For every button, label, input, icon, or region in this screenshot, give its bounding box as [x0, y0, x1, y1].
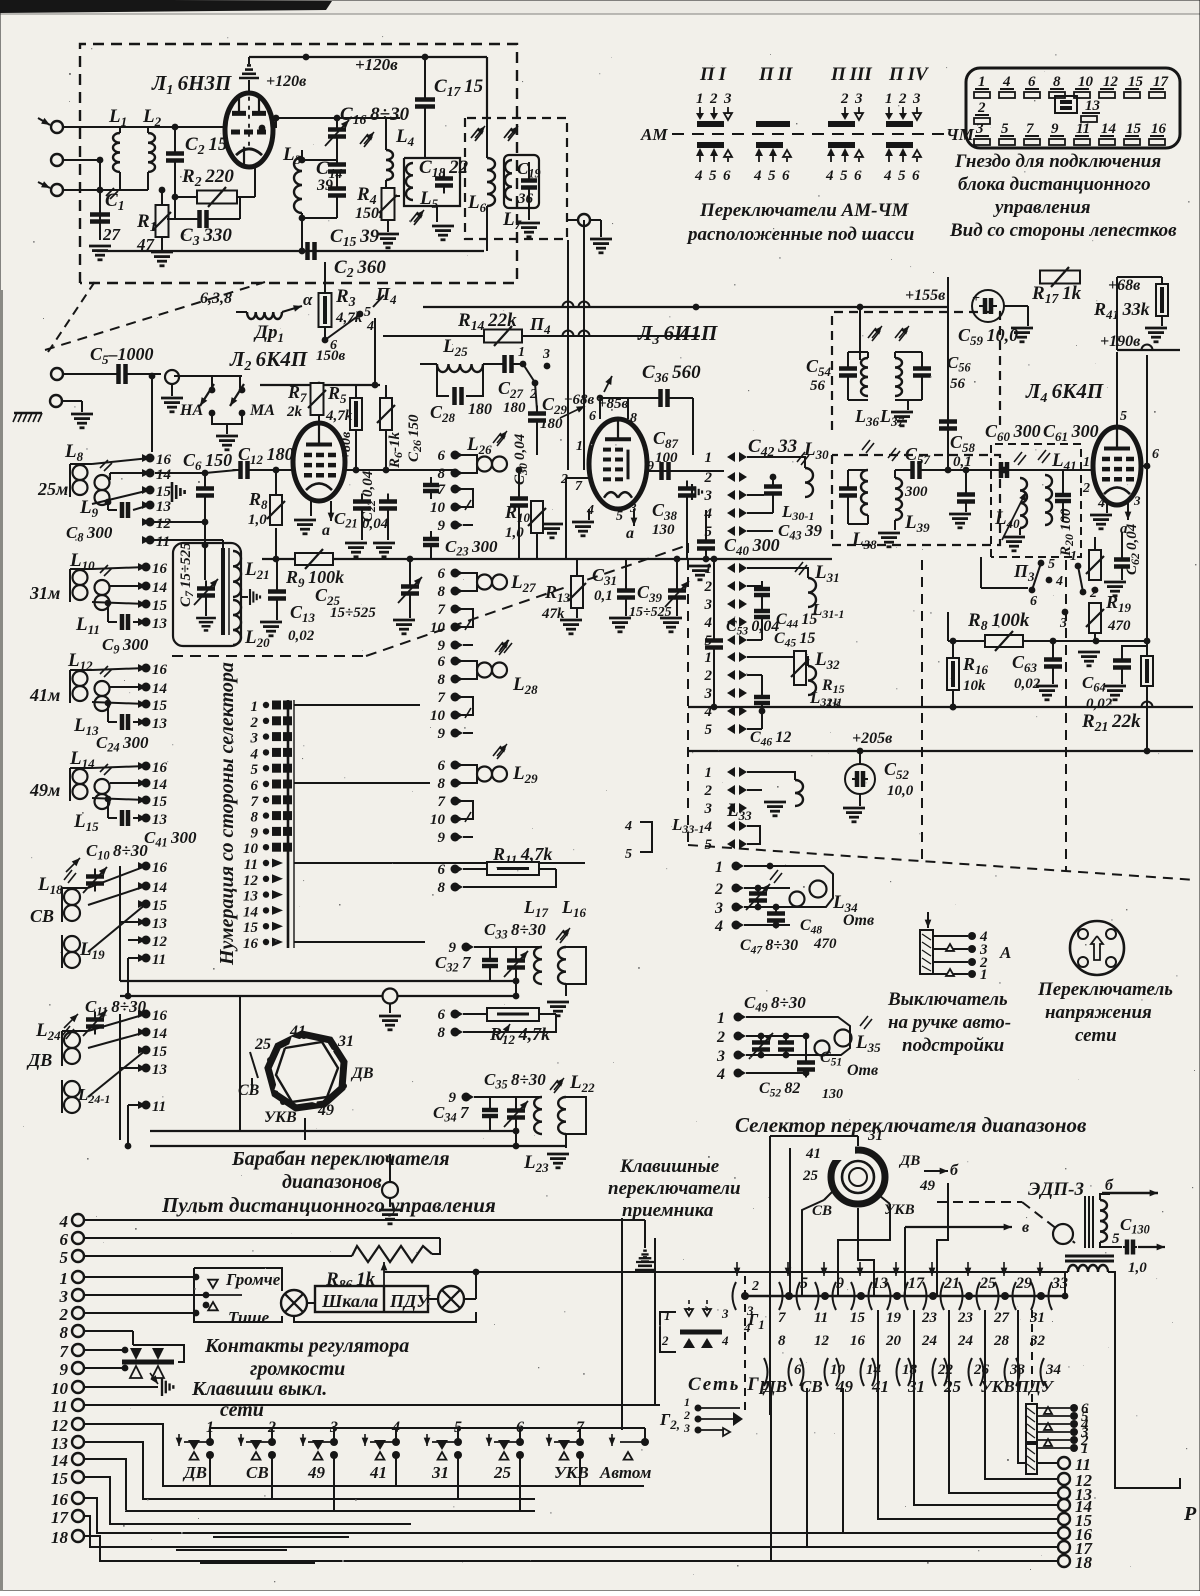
- tune mark L37: [895, 328, 903, 338]
- wire grid: [225, 126, 226, 128]
- svg-text:18: 18: [51, 1528, 69, 1547]
- svg-text:С5–1000: С5–1000: [90, 344, 154, 367]
- key link 2: [272, 1428, 334, 1442]
- resistors R18 R19 470: [1089, 550, 1101, 580]
- svg-text:Клавишные: Клавишные: [619, 1156, 720, 1177]
- capacitor C130 1.0: [1100, 1242, 1122, 1247]
- tune mark L36: [868, 328, 876, 338]
- wire t13 stair: [84, 1442, 535, 1499]
- contact arc L 13: [851, 1282, 855, 1310]
- svg-text:21: 21: [943, 1275, 960, 1292]
- svg-text:41м: 41м: [29, 685, 60, 705]
- capacitor C53 0.04: [713, 559, 715, 636]
- wire pin6: [1141, 465, 1147, 467]
- svg-text:9: 9: [836, 1275, 844, 1292]
- wire selector row6: [294, 782, 430, 784]
- resistor R17 1k: [1040, 271, 1080, 284]
- dashed vertical boundary 922: [921, 560, 923, 862]
- capacitor C28 under L25: [437, 364, 449, 396]
- inductor L12: [73, 671, 88, 686]
- resistor R21 22k v: [1141, 656, 1153, 686]
- contact arc R 25: [977, 1282, 981, 1310]
- svg-text:3: 3: [975, 121, 984, 137]
- svg-text:15÷525: 15÷525: [330, 605, 376, 621]
- long wire t16r: [200, 1532, 1058, 1534]
- drum stubs: [824, 1188, 836, 1200]
- capacitor C5 1000: [63, 373, 115, 375]
- wire L34 rows 1-3: [744, 866, 833, 907]
- stub pin2: [566, 477, 589, 479]
- svg-text:9: 9: [60, 1360, 69, 1379]
- svg-text:7: 7: [438, 794, 446, 810]
- ground under L5: [424, 157, 426, 159]
- terminal 11 right: [1058, 1457, 1070, 1469]
- wire IF to L4 grid: [948, 469, 1095, 471]
- wire 150v rail: [383, 335, 700, 337]
- svg-text:31: 31: [337, 1033, 354, 1050]
- svg-text:6: 6: [438, 566, 446, 582]
- wire L31 row1: [747, 567, 790, 569]
- svg-text:6: 6: [1030, 594, 1037, 609]
- mains open triangles: [685, 1309, 693, 1316]
- scale box: [315, 1286, 428, 1312]
- arrow a: [330, 501, 332, 521]
- wire selector row1: [294, 704, 420, 706]
- svg-text:15: 15: [152, 1044, 168, 1060]
- tune mark L18: [66, 858, 80, 872]
- arrow up 4: [885, 148, 893, 156]
- wire t15 stair: [84, 1477, 411, 1524]
- key link 4: [396, 1428, 458, 1442]
- svg-text:напряжения: напряжения: [1045, 1002, 1152, 1023]
- key link 7 right: [580, 1428, 645, 1442]
- capacitor C3 330: [174, 197, 176, 219]
- svg-text:+190в: +190в: [1100, 333, 1140, 350]
- arrow a L3: [633, 509, 635, 526]
- arrow up 5: [710, 148, 718, 156]
- key contacts 2: [268, 1438, 276, 1446]
- svg-text:3: 3: [704, 801, 713, 817]
- contact pin 16 DV: [142, 1010, 151, 1019]
- mains switch bar: [680, 1330, 722, 1335]
- selector contact 6: [263, 781, 269, 787]
- svg-text:15: 15: [243, 920, 259, 936]
- svg-text:3: 3: [59, 1287, 69, 1306]
- svg-text:1: 1: [705, 450, 713, 466]
- dashed PDU wire: [1031, 1310, 1033, 1404]
- dashed vertical chassis boundary: [687, 543, 689, 845]
- svg-text:5: 5: [616, 509, 623, 524]
- key triangles top: [130, 1348, 142, 1360]
- wire selector row11: [294, 862, 585, 864]
- arrow up 5: [769, 148, 777, 156]
- svg-text:4: 4: [883, 168, 892, 184]
- svg-text:12: 12: [814, 1333, 830, 1349]
- arrow up 4: [755, 148, 763, 156]
- ground cathode L4: [1106, 503, 1108, 513]
- wire Avtom link: [644, 1428, 646, 1442]
- svg-text:13: 13: [1085, 98, 1101, 114]
- drum gap: [830, 1146, 855, 1160]
- contact pin 16 25m: [146, 454, 155, 463]
- svg-text:Отв: Отв: [843, 912, 874, 929]
- svg-text:130: 130: [652, 522, 675, 538]
- resistor R6 1k: [385, 385, 387, 398]
- hatched connector bar: [1026, 1404, 1037, 1442]
- svg-text:16: 16: [152, 860, 168, 876]
- contact dot 33: [1037, 1292, 1045, 1300]
- svg-text:С61 300: С61 300: [1043, 421, 1099, 444]
- wire t14 stair: [84, 1459, 535, 1511]
- svg-text:С41 300: С41 300: [144, 828, 197, 850]
- inductor L33: [795, 780, 803, 806]
- node: [261, 128, 263, 155]
- svg-text:Вид со стороны лепестков: Вид со стороны лепестков: [949, 220, 1177, 241]
- svg-text:на ручке авто-: на ручке авто-: [888, 1012, 1011, 1033]
- svg-text:12: 12: [51, 1416, 69, 1435]
- group arrow 5: [787, 1262, 789, 1276]
- antenna terminal 1: [51, 121, 63, 133]
- open arrow down: [916, 107, 918, 113]
- svg-text:управления: управления: [993, 197, 1091, 218]
- svg-text:С35 8÷30: С35 8÷30: [484, 1070, 546, 1092]
- contact dot 13: [857, 1292, 865, 1300]
- selector contact 9: [263, 828, 269, 834]
- wire pair 7-10 L26: [455, 489, 473, 507]
- svg-text:Выключатель: Выключатель: [887, 989, 1008, 1010]
- contact dot 9: [821, 1292, 829, 1300]
- key contacts 5: [454, 1438, 462, 1446]
- svg-text:Переключатели АМ-ЧМ: Переключатели АМ-ЧМ: [699, 200, 910, 221]
- svg-text:С47 8÷30: С47 8÷30: [740, 937, 798, 957]
- inductor L14: [73, 769, 88, 784]
- inductor L19: [64, 936, 80, 952]
- arrow down 2: [713, 107, 715, 118]
- svg-text:13: 13: [152, 1062, 168, 1078]
- node: [483, 129, 485, 131]
- inductor L2: [147, 127, 149, 133]
- svg-text:5: 5: [768, 168, 776, 184]
- svg-text:11: 11: [244, 857, 258, 873]
- hatched bar autotune: [920, 930, 933, 974]
- svg-text:11: 11: [814, 1310, 828, 1326]
- svg-text:1: 1: [251, 699, 259, 715]
- svg-text:сети: сети: [220, 1399, 264, 1421]
- svg-text:23: 23: [957, 1310, 974, 1326]
- svg-text:Сеть Гр: Сеть Гр: [688, 1374, 772, 1395]
- svg-text:16: 16: [1151, 121, 1167, 137]
- ground triangle t4: [636, 1261, 654, 1263]
- contact pin 13 25m: [146, 501, 155, 510]
- inductor L27: [477, 575, 492, 590]
- key link 1: [210, 1428, 272, 1442]
- svg-text:С30 0,04: С30 0,04: [512, 433, 530, 485]
- svg-text:150в: 150в: [316, 348, 346, 364]
- svg-text:П IV: П IV: [888, 64, 929, 85]
- svg-text:14: 14: [152, 777, 168, 793]
- G2 triangles: [733, 1412, 743, 1426]
- vertical wire k7: [937, 1183, 948, 1296]
- svg-text:2: 2: [898, 91, 907, 107]
- svg-text:в: в: [1022, 1219, 1029, 1236]
- switch bar bottom: [886, 142, 913, 148]
- svg-text:А: А: [999, 943, 1011, 962]
- svg-text:10: 10: [430, 500, 446, 516]
- wire pin15: [92, 602, 146, 604]
- svg-text:4: 4: [721, 1333, 729, 1348]
- svg-text:4: 4: [1002, 74, 1011, 90]
- resistor R5 4.7k: [355, 385, 357, 398]
- selector contact 2: [263, 718, 269, 724]
- svg-text:23: 23: [921, 1310, 938, 1326]
- row wires: [747, 494, 764, 496]
- svg-text:3: 3: [716, 1048, 725, 1065]
- wire t7: [84, 1349, 125, 1351]
- lower arc R 18: [897, 1358, 901, 1386]
- wire t6 down: [654, 1238, 656, 1404]
- svg-text:1: 1: [518, 345, 525, 360]
- svg-text:7: 7: [438, 690, 446, 706]
- capacitor C29 180: [528, 411, 546, 416]
- contact arc R 29: [1013, 1282, 1017, 1310]
- svg-text:6: 6: [854, 168, 862, 184]
- ground stub left: [541, 523, 563, 526]
- svg-text:1: 1: [1070, 549, 1077, 564]
- contact arc L 17: [887, 1282, 891, 1310]
- svg-text:3: 3: [683, 1421, 690, 1435]
- wire R8 top: [275, 470, 277, 495]
- lower arc L 10: [800, 1358, 804, 1386]
- svg-text:7: 7: [1026, 121, 1034, 137]
- inductor L37: [895, 358, 902, 396]
- capacitor C64 0.02: [1113, 658, 1131, 663]
- key open triangle 5: [438, 1452, 447, 1460]
- contact pin 13: [142, 618, 151, 627]
- chassis ground mark: [14, 412, 42, 414]
- svg-text:17: 17: [1153, 74, 1169, 90]
- inductor L26: [477, 457, 492, 472]
- inductor L34: [790, 892, 805, 907]
- svg-text:11: 11: [156, 534, 170, 550]
- svg-text:СВ: СВ: [812, 1203, 832, 1219]
- svg-text:25м: 25м: [37, 479, 68, 499]
- vertical wire k5: [858, 1208, 874, 1296]
- svg-text:31м: 31м: [29, 583, 60, 603]
- svg-text:11: 11: [1076, 121, 1090, 137]
- dashed box UKV unit: [80, 44, 517, 283]
- ground C52: [859, 794, 861, 806]
- key drop 5: [457, 1455, 459, 1499]
- svg-text:13: 13: [152, 916, 168, 932]
- potentiometer R86 1k: [352, 1246, 432, 1262]
- svg-text:14: 14: [156, 467, 172, 483]
- drum inner cut: [274, 1037, 333, 1104]
- resistor R11 body: [463, 868, 487, 870]
- svg-text:39: 39: [316, 177, 333, 194]
- inductor L39: [895, 478, 902, 520]
- svg-text:1: 1: [705, 765, 713, 781]
- terminal 16 right: [1058, 1527, 1070, 1539]
- contact pin 15: [142, 796, 151, 805]
- wire t11: [84, 1404, 660, 1406]
- svg-text:б: б: [950, 1162, 959, 1179]
- svg-text:Селектор переключателя диапазо: Селектор переключателя диапазонов: [735, 1113, 1087, 1137]
- contact dot 21: [929, 1292, 937, 1300]
- tube U3 6I1P: [589, 419, 647, 509]
- svg-text:5: 5: [705, 524, 713, 540]
- resistor R10 1.0: [531, 501, 543, 533]
- wire pair 6-8 L27: [455, 573, 477, 591]
- svg-text:15: 15: [850, 1310, 866, 1326]
- group arrow 9: [823, 1262, 825, 1276]
- wire tube to contacts: [345, 469, 455, 471]
- wire pair 6-8 L26: [455, 455, 477, 473]
- stub: [124, 1350, 126, 1368]
- svg-text:0,02: 0,02: [288, 628, 315, 644]
- svg-text:9: 9: [438, 830, 446, 846]
- wires 12 11 CB: [128, 939, 146, 941]
- svg-text:4: 4: [704, 615, 713, 631]
- svg-text:С36 560: С36 560: [642, 362, 701, 385]
- svg-text:11: 11: [152, 952, 166, 968]
- selector contact 8: [263, 812, 269, 818]
- svg-text:2: 2: [704, 668, 713, 684]
- dashed box L40 L41: [991, 444, 1081, 557]
- svg-text:НА: НА: [179, 402, 203, 419]
- svg-text:10: 10: [430, 812, 446, 828]
- svg-text:10: 10: [243, 841, 259, 857]
- inductor L11: [95, 580, 110, 595]
- svg-text:49: 49: [307, 1463, 326, 1482]
- wire anode up: [318, 385, 320, 423]
- arrow up 4: [827, 148, 835, 156]
- svg-text:1: 1: [1081, 1441, 1089, 1457]
- svg-text:20: 20: [885, 1333, 902, 1349]
- svg-text:41: 41: [871, 1377, 889, 1396]
- capacitor C51 130: [797, 1060, 815, 1065]
- svg-text:2: 2: [751, 1279, 759, 1294]
- wire +155 into IF1: [859, 307, 861, 360]
- svg-text:34: 34: [1045, 1362, 1062, 1378]
- contact pin 13 CB: [142, 918, 151, 927]
- contact arc L 9: [815, 1282, 819, 1310]
- core marks L1/L2: [106, 188, 114, 196]
- lower arc R 34: [1041, 1358, 1045, 1386]
- wire drop SV: [806, 1388, 808, 1547]
- wire to switch NA: [174, 375, 212, 377]
- svg-text:8: 8: [438, 880, 446, 896]
- inductor L3: [301, 150, 303, 157]
- wire drop DV: [770, 1388, 772, 1561]
- svg-text:36: 36: [517, 191, 534, 207]
- svg-text:громкости: громкости: [250, 1358, 345, 1380]
- terminal 14 right: [1058, 1499, 1070, 1511]
- tune mark L31: [795, 562, 803, 572]
- inductor L23 coil and ground: [558, 1097, 566, 1134]
- switch bar bottom: [697, 142, 724, 148]
- svg-text:Громче: Громче: [225, 1270, 281, 1289]
- tune mark L41: [1038, 450, 1046, 460]
- inductor L1: [119, 127, 121, 133]
- capacitor C40 300: [697, 539, 715, 544]
- svg-text:2: 2: [59, 1305, 69, 1324]
- contact dot 25: [965, 1292, 973, 1300]
- vertical wire k3: [802, 1200, 824, 1296]
- svg-text:П III: П III: [830, 64, 872, 85]
- wire antenna to L1/L2 top: [63, 126, 226, 128]
- tuning mark L6: [471, 128, 479, 138]
- wire row1: [747, 456, 790, 458]
- chassis triangle above tube: [239, 77, 259, 80]
- svg-text:R6-1k: R6-1k: [387, 431, 405, 469]
- inductor L28: [477, 663, 492, 678]
- svg-text:СВ: СВ: [238, 1082, 260, 1099]
- side ground C38: [691, 484, 693, 500]
- capacitor C1 27 with ground: [99, 210, 101, 240]
- svg-text:49м: 49м: [29, 780, 60, 800]
- wire to P3 pin6: [980, 557, 982, 588]
- group arrow 25: [967, 1262, 969, 1276]
- svg-text:П I: П I: [699, 64, 727, 85]
- key arrow 4: [364, 1434, 366, 1446]
- wire t16 stair: [84, 1498, 200, 1533]
- svg-text:ПДУ: ПДУ: [389, 1291, 431, 1311]
- svg-text:Л3 6И1П: Л3 6И1П: [637, 321, 718, 348]
- svg-text:0,04: 0,04: [362, 516, 389, 532]
- svg-text:3: 3: [912, 91, 921, 107]
- svg-text:П II: П II: [758, 64, 793, 85]
- switch P4 wire: [324, 327, 326, 340]
- svg-text:ДВ: ДВ: [350, 1065, 374, 1082]
- pin 1 autotune: [933, 973, 968, 975]
- capacitor C31 0.1: [617, 588, 635, 593]
- ground below bus: [689, 565, 711, 568]
- variable capacitor C7: [204, 545, 206, 580]
- svg-text:4: 4: [704, 506, 713, 522]
- drum switch ring: [268, 1034, 344, 1108]
- svg-text:5: 5: [898, 168, 906, 184]
- contact pin 15: [142, 600, 151, 609]
- svg-text:6: 6: [438, 654, 446, 670]
- switch bar bottom: [756, 142, 783, 148]
- arrow up 5: [899, 148, 907, 156]
- contact pin 11 CB: [142, 954, 151, 963]
- contact pin 11 25m: [146, 536, 155, 545]
- contact dot 5: [785, 1292, 793, 1300]
- resistor R8 1.0: [270, 495, 282, 525]
- wire bus 707: [688, 706, 1193, 708]
- svg-text:R14 22k: R14 22k: [457, 310, 517, 333]
- keyboard bus wire: [745, 1295, 1065, 1297]
- wire C56 column with capacitor C56: [947, 307, 949, 470]
- capacitors C44 C45: [754, 587, 770, 592]
- vertical wire k4: [838, 1204, 890, 1296]
- capacitor C62 0.04: [1114, 557, 1130, 562]
- wire +190 rail: [1117, 349, 1180, 351]
- wire: [333, 229, 347, 231]
- capacitor C55 and ground: [913, 366, 931, 371]
- svg-text:1: 1: [978, 74, 986, 90]
- wire wiper long: [384, 1271, 1065, 1273]
- svg-text:5: 5: [60, 1248, 69, 1267]
- choke Dr1 coil: [236, 311, 247, 313]
- keyboard left edge wire: [621, 1218, 623, 1430]
- contact pin 16: [142, 664, 151, 673]
- key triangles bottom: [130, 1366, 142, 1378]
- resistor R13 47k: [571, 576, 583, 608]
- ground L39: [894, 520, 896, 530]
- svg-text:2k: 2k: [286, 404, 303, 420]
